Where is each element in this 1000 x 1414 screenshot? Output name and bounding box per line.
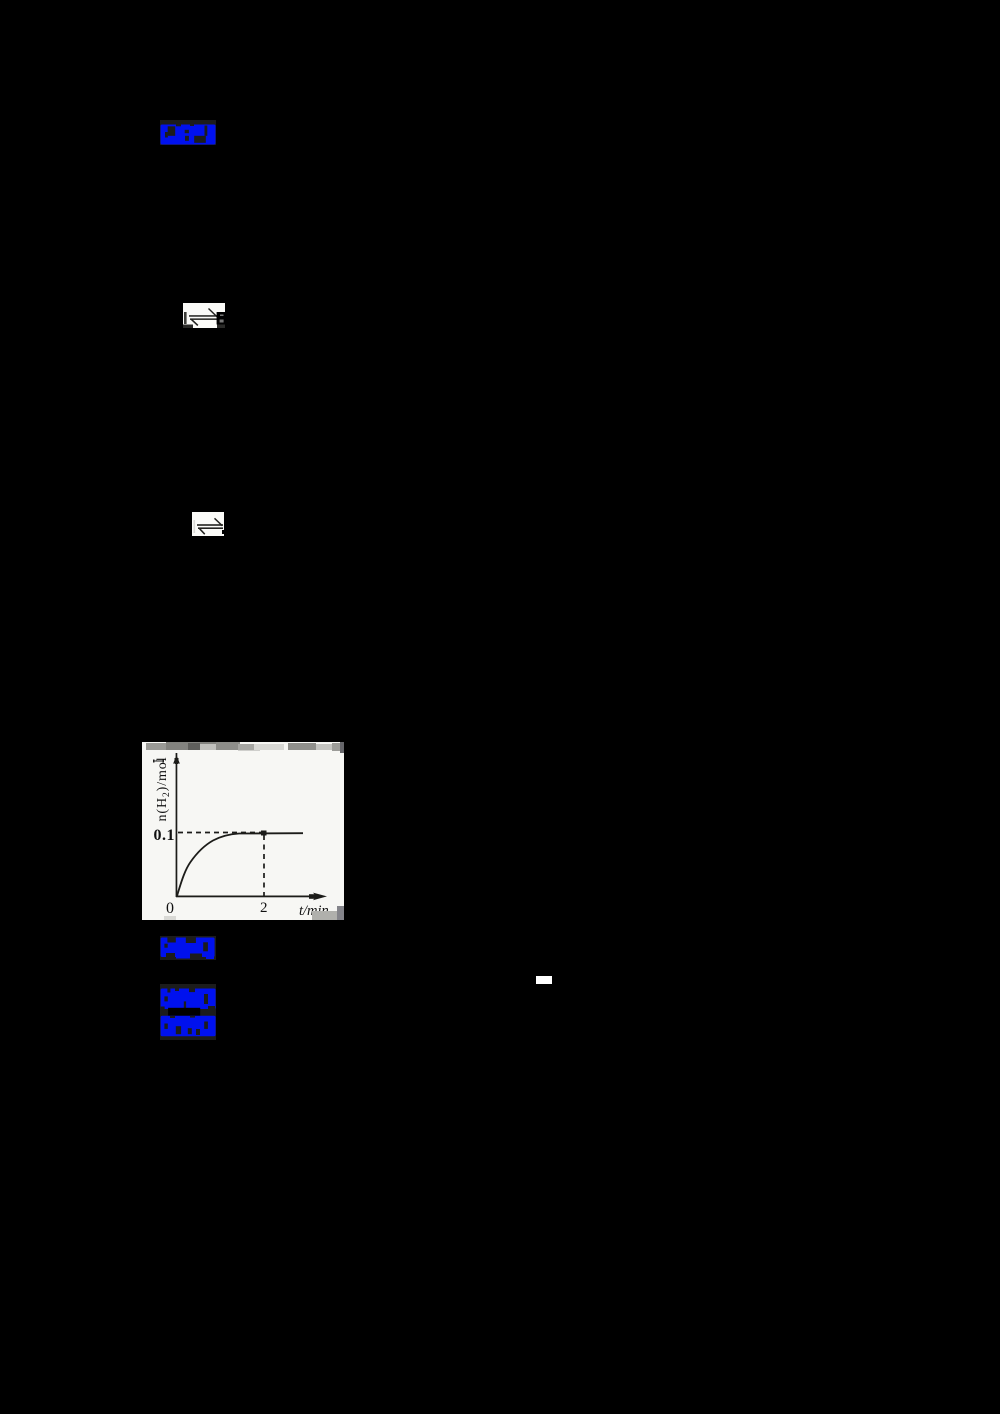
left dark bar [184,312,187,324]
small white inline image [536,976,552,985]
curve [177,833,303,896]
analysis label (blue 【解析】) [160,936,216,961]
bottom-right gray noise [312,911,338,920]
x axis arrowhead [313,893,327,901]
svg-text:0.1: 0.1 [154,827,176,844]
top arrow to the right [189,315,218,317]
bottom arrow to the left [190,318,218,320]
equilibrium-arrow image 1 [183,303,225,328]
right black notch [217,312,225,325]
y axis arrowhead [173,755,180,764]
bottom corner shading [183,325,193,329]
graph image (white box) [142,742,344,920]
svg-text:0: 0 [166,900,174,917]
x axis [176,896,322,898]
equilibrium-arrow image 2 [192,512,224,536]
ragged bottom: blue blob extensions [176,955,190,959]
dashed line y=0.1 [178,832,264,834]
marker point [261,831,267,836]
vertical dashed line at t=2 [263,835,265,896]
svg-text:n(H2)/mol: n(H2)/mol [155,757,172,822]
small dark dash upper-left [153,760,164,763]
y axis [176,753,178,897]
black gap rectangle between the two rows [168,1008,200,1016]
row 2: 【点睛】 [161,1016,216,1037]
answer label 1 (blue highlighted 【答案】) [160,120,216,145]
svg-text:2: 2 [260,900,268,916]
row 1: 【详解】 [161,989,216,1010]
detail + tips labels (blue 【详解】【点睛】) [160,984,216,1040]
gray scan noise strip along top [146,742,344,753]
